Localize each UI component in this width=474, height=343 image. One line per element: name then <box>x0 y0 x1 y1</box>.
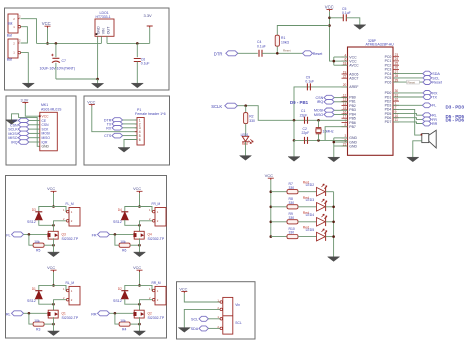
svg-text:FL_M: FL_M <box>66 202 74 206</box>
wire drain of Q1 <box>53 304 55 310</box>
wire VCC to I2C pin 1 <box>184 293 220 302</box>
svg-text:0.1uF: 0.1uF <box>141 62 150 66</box>
diode D2 SS12 <box>121 290 128 292</box>
wire C7 to ground rail <box>55 63 57 79</box>
wire manifold to VCC/AVCC pins <box>333 57 335 65</box>
wire DTR to C4 <box>238 52 258 54</box>
svg-text:R4: R4 <box>122 327 126 331</box>
VCC supply symbol <box>51 270 57 272</box>
svg-text:LED4: LED4 <box>306 213 315 217</box>
svg-text:Bat: Bat <box>8 21 13 25</box>
resistor R9 330 <box>287 220 298 224</box>
svg-text:10UF-16V-10%(TANT): 10UF-16V-10%(TANT) <box>40 66 76 70</box>
junction VCC / C5 <box>328 17 331 20</box>
svg-text:SCL: SCL <box>191 317 198 321</box>
wire 3.3V rail up to supply symbol <box>149 28 151 44</box>
svg-text:D4: D4 <box>118 208 122 212</box>
wire C4 to Reset flag <box>262 52 303 54</box>
svg-text:22pF: 22pF <box>302 131 310 135</box>
wire MOSI to MCU <box>334 109 347 111</box>
net flag Reset <box>303 51 313 56</box>
wire LED3 to ground rail <box>326 206 334 208</box>
VCC supply symbol <box>137 191 143 193</box>
svg-text:LED1: LED1 <box>241 133 249 137</box>
wire RL input to gate of Q1 <box>24 312 48 314</box>
svg-text:AS01-ML01S: AS01-ML01S <box>41 107 62 111</box>
junction VCC manifold <box>333 60 336 63</box>
net flag MOSI <box>18 131 29 136</box>
net flag FL input <box>12 232 24 237</box>
capacitor C6 0.1uF <box>134 59 141 62</box>
wire FR_M pin 2 to drain node <box>140 221 153 226</box>
svg-text:10k: 10k <box>120 240 126 244</box>
wire RR input to gate of Q2 <box>110 312 134 314</box>
svg-text:VCC: VCC <box>179 287 187 291</box>
capacitor C2 22pF <box>305 137 308 144</box>
wire to R9 <box>271 221 287 223</box>
junction source / R5 <box>52 244 55 247</box>
pin 29 PC6 of U1 (right) <box>393 81 399 83</box>
pin 9 PD5 of U1 (right) <box>393 113 399 115</box>
junction VCC / diode D2 / connector <box>138 284 141 287</box>
net flag FR (MCU) <box>422 117 431 122</box>
wire C5 to ground <box>346 18 360 25</box>
wire RR from MCU <box>393 122 422 124</box>
svg-text:3.3V: 3.3V <box>144 13 153 18</box>
transistor Q3 SI2302-TP N-MOSFET <box>48 231 58 239</box>
svg-text:6: 6 <box>139 138 141 142</box>
wire ground to MK1 GND pin <box>12 114 40 147</box>
wire drain of Q3 <box>53 225 55 231</box>
svg-text:22: 22 <box>343 75 347 79</box>
junction source / R4 <box>138 323 141 326</box>
wire CSN to MK1 pin <box>29 124 40 126</box>
wire diode D3 anode to drain node <box>39 220 54 226</box>
svg-text:CTS: CTS <box>104 134 112 138</box>
net flag TX <box>112 122 123 127</box>
junction crystal top <box>317 119 320 122</box>
svg-text:VIN: VIN <box>102 28 106 34</box>
svg-text:VCC: VCC <box>47 266 55 270</box>
resistor R10 330 <box>287 235 298 239</box>
wire LED1 to ground <box>245 142 247 156</box>
svg-text:GND: GND <box>97 26 101 34</box>
pin 5 GND of U1 (left) <box>342 141 348 143</box>
wire to R8 <box>271 206 287 208</box>
svg-text:SCLK: SCLK <box>211 104 222 109</box>
wire VCC to FL rail <box>53 193 55 206</box>
junction source / R6 <box>138 244 141 247</box>
wire VCC symbol to rail <box>47 28 49 43</box>
connector P1 female header 1*6 <box>137 118 144 146</box>
net flag IRQ (MCU side) <box>324 100 334 105</box>
pin 12 PB0 of U1 (left) <box>342 96 348 98</box>
wire ground rail down <box>293 140 295 156</box>
junction diode D4 / connector pin2 / drain <box>138 224 141 227</box>
pin 10 PD6 of U1 (right) <box>393 117 399 119</box>
wire down to R3 <box>29 313 33 324</box>
pin 11 PD7 of U1 (right) <box>393 121 399 123</box>
junction SCLK / R2 <box>244 104 247 107</box>
svg-text:IRQ: IRQ <box>11 141 18 145</box>
net flag DTR <box>226 51 238 56</box>
pin 17 PB5 of U1 (left) <box>342 117 348 119</box>
pin 1 PD3 of U1 (right) <box>393 104 399 106</box>
svg-text:16MHz: 16MHz <box>323 130 334 134</box>
VCC supply symbol <box>181 291 187 293</box>
frame box: I2C connector section <box>177 282 256 339</box>
wire R2 to LED1 <box>245 124 247 137</box>
svg-text:VCC: VCC <box>133 266 141 270</box>
resistor R1 10k <box>275 35 279 46</box>
wire rail to FR_M pin 1 <box>140 207 153 212</box>
pin 6 VCC of U1 (left) <box>342 60 348 62</box>
ground under Q4 <box>134 252 146 257</box>
wire to R7 <box>271 191 287 193</box>
svg-text:MISO: MISO <box>314 113 324 117</box>
svg-text:10k: 10k <box>120 319 126 323</box>
ground under crystal caps <box>288 157 300 162</box>
connector FR_M motor header <box>155 208 166 227</box>
svg-text:VCC: VCC <box>87 100 95 104</box>
net flag IRQ <box>18 140 29 145</box>
diode D1 SS12 <box>35 290 42 292</box>
pin 2 circle of RL_M <box>66 298 69 301</box>
junction GND manifold <box>333 141 336 144</box>
pin 1 circle of RR_M <box>152 289 155 292</box>
wire rail to RL_M pin 1 <box>54 285 67 290</box>
diode D3 SS12 <box>35 211 42 213</box>
wire MISO to MCU <box>334 114 347 116</box>
svg-text:R1: R1 <box>281 36 285 40</box>
junction gate / R6 <box>114 233 117 236</box>
pin 31 PD1 of U1 (right) <box>393 96 399 98</box>
wire PC5 to SCL <box>393 77 423 79</box>
pin 18 AVCC of U1 (left) <box>342 64 348 66</box>
junction diode D3 / connector pin2 / drain <box>52 224 55 227</box>
svg-text:10k: 10k <box>34 240 40 244</box>
wire I2C pin 2 to ground <box>184 309 220 327</box>
wire SCL to pin <box>208 318 220 320</box>
frame box: power supply section <box>5 8 170 90</box>
svg-text:D2: D2 <box>118 287 122 291</box>
wire rail to FL_M pin 1 <box>54 207 67 212</box>
ground in I2C box <box>178 328 190 333</box>
capacitor C5 0.1uF <box>343 14 346 21</box>
wire LED array ground rail <box>333 192 335 257</box>
wire down to R4 <box>115 313 119 324</box>
resistor R8 330 <box>287 205 298 209</box>
svg-text:AVCC: AVCC <box>349 64 359 68</box>
wire VCC to RR rail <box>139 272 141 285</box>
svg-text:RR: RR <box>91 313 97 317</box>
net flag SDA <box>199 326 208 331</box>
wire rail to RR_M pin 1 <box>140 285 153 290</box>
VCC supply symbol <box>51 191 57 193</box>
junction rail / R7 <box>270 190 273 193</box>
svg-text:R6: R6 <box>122 248 126 252</box>
module MK1 AS01-ML01S <box>40 112 58 151</box>
resistor R5 10k <box>33 243 44 247</box>
svg-text:R3: R3 <box>36 327 40 331</box>
net name Reset label box on wire <box>407 80 420 84</box>
capacitor C9 0.1uF <box>307 83 310 90</box>
svg-text:SI2302-TP: SI2302-TP <box>148 237 165 241</box>
svg-text:IRQ: IRQ <box>317 100 324 104</box>
wire drain of Q4 <box>139 225 141 231</box>
VCC supply symbol <box>45 26 51 28</box>
svg-text:D3: D3 <box>32 208 36 212</box>
wire CSN to MCU <box>334 97 347 99</box>
svg-text:22pF: 22pF <box>300 113 308 117</box>
pin 3 GND of U1 (left) <box>342 137 348 139</box>
wire RR_M pin 2 to drain node <box>140 300 153 305</box>
wire R1 to reset node <box>276 46 278 53</box>
svg-text:VCC: VCC <box>47 187 55 191</box>
wire CTS to P1 <box>123 135 137 137</box>
svg-text:SS12: SS12 <box>113 299 122 303</box>
svg-text:LED5: LED5 <box>306 228 315 232</box>
wire VCC to FR rail <box>139 193 141 206</box>
svg-text:SI2302-TP: SI2302-TP <box>148 316 165 320</box>
net flag CSN <box>18 123 29 128</box>
svg-text:VCC: VCC <box>42 21 51 26</box>
net flag RX <box>112 126 123 131</box>
LED LED3 Red <box>317 203 326 212</box>
net flag RR input <box>98 311 110 316</box>
svg-text:DTR: DTR <box>214 51 223 56</box>
svg-text:Bat: Bat <box>7 34 12 38</box>
junction VCC / diode D4 / connector <box>138 205 141 208</box>
svg-text:SS12: SS12 <box>27 220 36 224</box>
wire PD1 to TX <box>393 96 423 98</box>
junction rail / R10 <box>270 235 273 238</box>
wire FL input to gate of Q3 <box>24 233 48 235</box>
wire RL_M pin 2 to drain node <box>54 300 67 305</box>
VCC supply symbol <box>137 270 143 272</box>
junction diode D2 / connector pin2 / drain <box>138 303 141 306</box>
wire VCC rail to LDO VIN <box>37 42 102 44</box>
svg-text:330: 330 <box>289 201 295 205</box>
svg-text:FL: FL <box>6 234 10 238</box>
ground under C5 <box>354 25 366 30</box>
wire speaker to ground <box>413 141 422 157</box>
svg-text:SI2302-TP: SI2302-TP <box>62 237 79 241</box>
svg-text:GND: GND <box>42 145 50 149</box>
svg-text:330: 330 <box>289 231 295 235</box>
ground under battery <box>22 83 34 88</box>
connector Bat (top battery) <box>8 14 18 33</box>
pin 7 PB6 of U1 (left) <box>342 122 348 124</box>
ground at MK1 <box>6 120 18 125</box>
net flag SCL <box>423 76 432 81</box>
ground under P1 <box>118 148 130 153</box>
connector FL_M motor header <box>69 208 80 227</box>
junction VCC / diode D3 / connector <box>52 205 55 208</box>
wire ground rail vertical <box>293 120 295 140</box>
pin 14 PB2 of U1 (left) <box>342 105 348 107</box>
pin 21 GND of U1 (left) <box>342 145 348 147</box>
wire MISO to MK1 pin <box>29 137 40 139</box>
wire AREF to C9 and ground rail <box>294 87 348 120</box>
wire LED5 to ground rail <box>326 236 334 238</box>
wire DTR to P1 <box>123 119 137 121</box>
svg-text:FR: FR <box>92 234 97 238</box>
svg-text:Reset: Reset <box>432 81 442 85</box>
wire Bat1 pin1 to Bat2 pin2 <box>21 27 28 43</box>
net flag RR (MCU) <box>422 121 431 126</box>
net flag CE <box>18 118 29 123</box>
pin 22 ADC7 of U1 (left) <box>342 77 348 79</box>
pin 20 AREF of U1 (left) <box>342 86 348 88</box>
junction crystal bottom <box>317 139 320 142</box>
connector RR_M motor header <box>155 286 166 305</box>
wire crystal bottom line <box>294 139 348 141</box>
svg-text:Reset: Reset <box>283 49 291 53</box>
junction gate / R4 <box>114 312 117 315</box>
junction source / R3 <box>52 323 55 326</box>
junction rail / R9 <box>270 221 273 224</box>
wire crystal bottom to PB7 <box>325 127 347 141</box>
wire VCC rail of LED array <box>270 180 272 237</box>
LED LED5 Red <box>317 232 326 241</box>
svg-text:RR: RR <box>432 122 438 126</box>
wire FL_M pin 2 to drain node <box>54 221 67 226</box>
pin 16 PB4 of U1 (left) <box>342 113 348 115</box>
wire SCLK / crystal top to PB5 <box>237 106 347 121</box>
ground under Q1 <box>48 331 60 336</box>
svg-text:SS12: SS12 <box>113 220 122 224</box>
wire CE to MK1 pin <box>29 120 40 122</box>
wire source of Q2 to ground <box>139 317 141 331</box>
wire R4 to source node <box>130 323 139 325</box>
net flag MISO (MCU side) <box>324 112 334 117</box>
junction ground rail / crystal bottom <box>293 139 296 142</box>
svg-text:D9 - PB1: D9 - PB1 <box>290 100 309 105</box>
svg-text:OUT: OUT <box>107 26 111 34</box>
junction ground rail / crystal top <box>293 119 296 122</box>
wire LDO OUT pin down <box>106 36 108 43</box>
transistor Q2 SI2302-TP N-MOSFET <box>134 310 144 318</box>
connector I2C (Vin / SCL headers) <box>223 297 233 334</box>
svg-text:PD7: PD7 <box>385 120 392 124</box>
wire source of Q1 to ground <box>53 317 55 331</box>
wire C7 ground rail to LDO GND <box>56 78 98 80</box>
wire to ground <box>97 79 99 83</box>
wire MOSI to MK1 pin <box>29 132 40 134</box>
VCC supply symbol <box>89 105 95 107</box>
ground under U1 <box>328 157 340 162</box>
svg-text:VCC: VCC <box>325 4 334 9</box>
svg-text:10kΩ: 10kΩ <box>281 41 289 45</box>
wire R6 to source node <box>130 244 139 246</box>
pin 28 PC5 of U1 (right) <box>393 77 399 79</box>
svg-text:3.3V: 3.3V <box>21 98 29 102</box>
ground under C6 <box>131 83 143 88</box>
wire VCC to P1 pin 4 <box>92 106 137 131</box>
wire RX to P1 <box>123 127 137 129</box>
ground under Q2 <box>134 331 146 336</box>
junction diode D1 / connector pin2 / drain <box>52 303 55 306</box>
wire PD4 to speaker <box>393 109 422 135</box>
svg-text:10k: 10k <box>34 319 40 323</box>
connector RL_M motor header <box>69 286 80 305</box>
pin 2 circle of FL_M <box>66 220 69 223</box>
frame box: motor drivers section <box>6 176 167 339</box>
pin 4 VCC of U1 (left) <box>342 56 348 58</box>
wire PC6 to Reset flag <box>393 81 423 83</box>
svg-text:VCC: VCC <box>265 173 274 178</box>
wire Bat2 pin1 to ground <box>21 53 29 84</box>
ground under Q3 <box>48 252 60 257</box>
junction R1 / reset net <box>276 52 279 55</box>
junction 3.3V rail / C6 <box>136 42 139 45</box>
wire diode D2 anode to drain node <box>125 299 140 305</box>
svg-text:Vin: Vin <box>235 303 240 307</box>
wire rail down to C7 <box>55 43 57 57</box>
svg-text:330: 330 <box>249 119 255 123</box>
wire IRQ to MCU <box>334 101 347 103</box>
wire drain of Q2 <box>139 304 141 310</box>
svg-text:SDA: SDA <box>191 327 199 331</box>
net flag SCL <box>199 316 208 321</box>
net flag SCLK <box>225 103 238 108</box>
net flag RX <box>423 91 432 96</box>
wire to diode D4 cathode <box>125 207 140 212</box>
pin 32 PD2 of U1 (right) <box>393 100 399 102</box>
pin 1 of I2C connector at y=318.8 <box>219 318 222 320</box>
wire to diode D1 cathode <box>39 285 54 290</box>
wire 3.3V to MK1 VCC pin <box>25 104 40 116</box>
svg-text:0.1uF: 0.1uF <box>257 44 266 48</box>
net flag RL input <box>12 311 24 316</box>
svg-text:SS12: SS12 <box>27 299 36 303</box>
wire LDO GND pin down <box>97 36 99 79</box>
junction LED ground rail 3 <box>332 235 335 238</box>
wire FR from MCU <box>393 118 422 120</box>
svg-text:FR_M: FR_M <box>152 202 161 206</box>
net flag RL (MCU) <box>422 113 431 118</box>
pin 26 PC3 of U1 (right) <box>393 68 399 70</box>
svg-text:VCC: VCC <box>133 187 141 191</box>
wire diode D1 anode to drain node <box>39 299 54 305</box>
svg-text:SI2302-TP: SI2302-TP <box>62 316 79 320</box>
net flag SDA <box>423 71 432 76</box>
3.3V supply symbol <box>147 26 153 28</box>
pin 13 PB1 of U1 (left) <box>342 100 348 102</box>
svg-text:ATMEGA328P-AU: ATMEGA328P-AU <box>366 42 395 46</box>
svg-text:ADC7: ADC7 <box>349 77 358 81</box>
net flag Reset (MCU) <box>423 80 432 85</box>
net flag DTR <box>112 118 123 123</box>
VCC supply symbol <box>22 102 28 104</box>
svg-text:C7: C7 <box>62 59 67 63</box>
svg-text:Reset: Reset <box>408 80 416 84</box>
svg-text:RL_M: RL_M <box>66 281 75 285</box>
wire down to R6 <box>115 234 119 245</box>
junction LDO ground / C7 rail <box>96 78 99 81</box>
pin 1 of I2C connector at y=302 <box>219 301 222 303</box>
microcontroller U1 ATMEGA328P-AU <box>348 47 394 155</box>
svg-text:PC6: PC6 <box>385 80 392 84</box>
wire LDO VIN pin to rail <box>100 36 102 43</box>
wire C6 to ground <box>136 62 138 84</box>
svg-text:TX: TX <box>432 95 437 99</box>
svg-text:HT7333-1: HT7333-1 <box>96 15 111 19</box>
svg-text:Female header 1*6: Female header 1*6 <box>135 112 166 116</box>
svg-text:RL: RL <box>6 313 11 317</box>
pin 25 PC2 of U1 (right) <box>393 64 399 66</box>
